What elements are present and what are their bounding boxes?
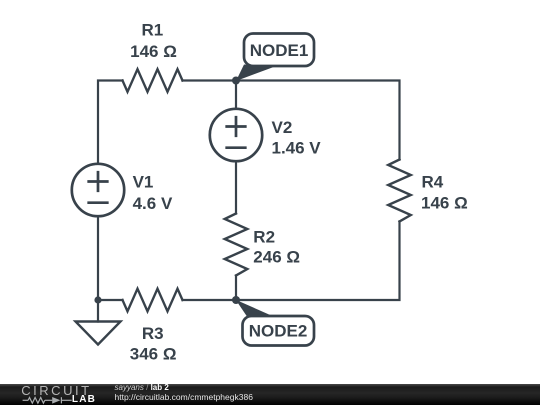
ground <box>76 322 121 345</box>
label R3 value <box>130 324 177 363</box>
logo CIRCUIT text <box>21 384 91 397</box>
svg-text:V1: V1 <box>133 172 154 191</box>
label R4 value <box>421 173 468 213</box>
footer url text <box>115 393 253 402</box>
node NODE2 label text <box>249 322 308 341</box>
node NODE1 callout box <box>244 34 314 67</box>
wire R1 right lead to NODE1 <box>183 79 237 81</box>
resistor R1 <box>123 69 183 92</box>
wire top right segment and right branch upper <box>236 81 400 160</box>
label R1 value <box>130 20 177 61</box>
logo LAB text <box>72 395 96 405</box>
wire V1 bottom to bottom-left junction <box>97 217 99 301</box>
svg-text:146 Ω: 146 Ω <box>130 42 177 61</box>
svg-text:1.46 V: 1.46 V <box>272 139 322 158</box>
wire R2 bottom to NODE2 <box>235 276 237 301</box>
svg-text:346 Ω: 346 Ω <box>130 345 177 364</box>
resistor R2 <box>225 214 248 276</box>
wire top-left corner and left branch upper <box>98 81 123 164</box>
svg-text:R1: R1 <box>142 20 164 39</box>
label R2 value <box>253 228 300 267</box>
svg-text:R4: R4 <box>422 173 444 192</box>
label V2 value <box>272 118 322 158</box>
svg-text:146 Ω: 146 Ω <box>421 194 468 213</box>
svg-text:246 Ω: 246 Ω <box>253 248 300 267</box>
svg-text:4.6 V: 4.6 V <box>133 194 173 213</box>
svg-text:V2: V2 <box>272 118 293 137</box>
voltage source V1 <box>72 164 124 216</box>
label V1 value <box>133 172 173 213</box>
svg-text:NODE1: NODE1 <box>250 41 309 60</box>
logo wire squiggle with resistor and diode <box>23 397 72 403</box>
svg-text:R3: R3 <box>142 324 164 343</box>
node A junction dot (NODE1) <box>232 77 240 85</box>
resistor R4 <box>388 160 411 222</box>
wire NODE1 to V2 top <box>235 81 237 109</box>
footer title text <box>115 384 169 392</box>
node junction dot bottom-left <box>94 296 101 303</box>
wire bottom-left junction to R3 and ground lead <box>98 300 123 322</box>
voltage source V2 <box>210 109 262 161</box>
node NODE1 callout tail <box>236 65 275 82</box>
svg-text:NODE2: NODE2 <box>249 322 308 341</box>
node NODE1 label text <box>250 41 309 60</box>
node B junction dot (NODE2) <box>232 296 240 304</box>
wire V2 bottom to R2 top <box>235 162 237 214</box>
resistor R3 <box>123 289 183 312</box>
footer bar <box>0 384 540 405</box>
node NODE2 callout tail <box>236 300 274 317</box>
svg-text:R2: R2 <box>253 228 275 247</box>
node NODE2 callout box <box>243 316 315 346</box>
wire bottom right segment and right branch lower <box>236 222 400 301</box>
wire R3 right lead to NODE2 <box>183 299 237 301</box>
